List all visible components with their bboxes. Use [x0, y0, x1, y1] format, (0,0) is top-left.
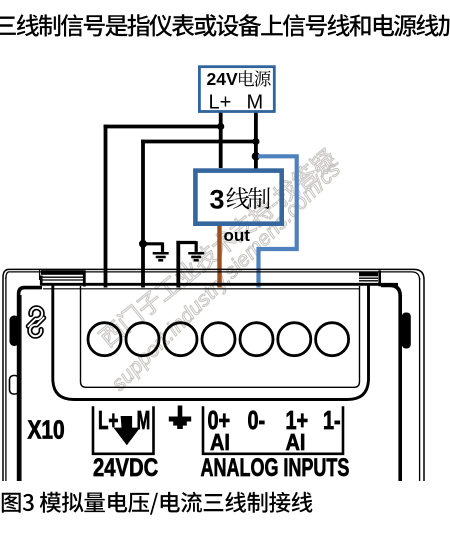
module top step vertical — [39, 270, 41, 281]
wire horizontal M branch — [141, 140, 256, 144]
terminal cover right edge — [381, 285, 400, 481]
terminal cover left edge — [19, 288, 42, 481]
module top inner edge line — [6, 272, 420, 280]
terminal screw GND — [164, 323, 197, 356]
right housing black clip tab — [402, 313, 411, 349]
wire vertical down to M terminal — [141, 140, 145, 288]
arrow down 24VDC feed — [114, 416, 141, 445]
hinge slot lines right — [359, 277, 378, 279]
wire vertical down to L+ terminal — [104, 125, 108, 288]
svg-text:3: 3 — [210, 185, 225, 215]
svg-text:24V: 24V — [207, 69, 238, 89]
terminal screw 0+ — [202, 323, 235, 356]
svg-text:24VDC: 24VDC — [93, 453, 158, 482]
wire L+ from 24V supply down to transmitter — [219, 112, 223, 168]
left housing small tab outline — [10, 376, 20, 395]
terminal strip block outline — [53, 284, 369, 400]
svg-text:out: out — [224, 226, 251, 245]
hinge slot lines — [41, 276, 83, 278]
node junction on M branch at ground tap — [139, 240, 147, 248]
terminal screw 0- — [240, 323, 273, 356]
svg-text:M: M — [137, 407, 151, 436]
transmitter 3-wire box U1 — [195, 171, 281, 224]
terminal screw L+ — [88, 323, 121, 356]
svg-text:X10: X10 — [28, 415, 65, 443]
terminal screw 1+ — [278, 323, 311, 356]
ground symbol terminal row — [178, 406, 183, 418]
wire blue signal minus run — [258, 156, 297, 287]
hinge slot black band — [41, 270, 83, 275]
caption figure text — [2, 492, 313, 515]
hinge slot black band right — [359, 272, 378, 276]
terminal screw 1- — [316, 323, 349, 356]
wire from ground terminal up to ground stub — [176, 241, 180, 288]
svg-text:L+: L+ — [98, 406, 118, 435]
cover grip icon (interlocked hooks) — [28, 308, 43, 336]
module housing inner edge lines — [5, 277, 7, 481]
hinge to strip bridge — [40, 276, 43, 286]
bracket 24VDC group — [93, 406, 154, 454]
terminal screw M — [126, 323, 159, 356]
node junction on M wire — [252, 138, 259, 145]
wire ground stub from M branch — [143, 242, 163, 245]
svg-text:0-: 0- — [248, 405, 266, 434]
PLC module outer housing outline — [3, 269, 424, 481]
terminal cover top edge — [42, 283, 398, 286]
terminal strip inner face line — [81, 286, 360, 387]
svg-text:AI: AI — [210, 429, 230, 456]
svg-text:AI: AI — [286, 429, 306, 456]
wire M from 24V supply down — [254, 112, 258, 170]
svg-text:ANALOG INPUTS: ANALOG INPUTS — [201, 453, 350, 482]
watermark diagonal text chinese — [96, 146, 339, 348]
hinge slot right post 2 — [378, 270, 381, 286]
wire brown signal out to terminal 0+ — [217, 226, 221, 288]
power supply 24V box — [199, 67, 274, 112]
svg-text:M: M — [247, 92, 264, 114]
wire horizontal L+ branch to terminal L+ — [104, 125, 221, 129]
left housing black clip tab — [10, 316, 20, 347]
node junction on L+ wire — [217, 123, 224, 130]
svg-text:1-: 1- — [323, 405, 341, 434]
heading text — [0, 14, 450, 37]
bracket analog inputs group — [203, 406, 343, 454]
ground symbol 1 — [153, 252, 169, 255]
svg-text:L+: L+ — [209, 92, 232, 114]
terminal strip top inner line — [43, 288, 360, 290]
node junction M to blue signal-minus wire — [252, 152, 260, 160]
ground symbol 2 — [188, 252, 204, 255]
watermark diagonal text url — [107, 157, 345, 395]
hinge slot right post — [83, 270, 86, 286]
